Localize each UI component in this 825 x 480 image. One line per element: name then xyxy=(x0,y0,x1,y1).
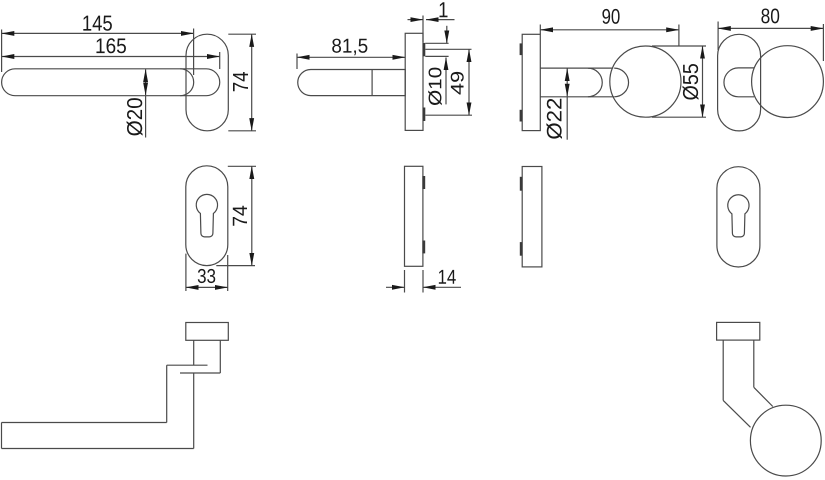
dimension 145 xyxy=(2,16,194,75)
knob neck (plan view, cranked) xyxy=(723,340,773,427)
keyhole (euro profile cylinder, right) xyxy=(728,195,749,237)
clip top (knob plate) xyxy=(520,43,523,55)
dimension 33 xyxy=(186,254,228,291)
dimension diameter 20 xyxy=(127,69,146,137)
clip bottom (knob plate) xyxy=(520,110,523,122)
lever handle silhouette (front view, top-left) xyxy=(2,69,220,96)
knob neck (front view) xyxy=(724,68,754,97)
lever grip inner end cap xyxy=(180,69,193,96)
dimension diameter 10 xyxy=(428,26,447,105)
knob neck inner cap xyxy=(588,68,602,97)
knob sphere (front view) xyxy=(752,46,824,118)
knob sphere (side view) xyxy=(610,46,681,117)
dimension 49 xyxy=(451,49,469,115)
dimension diameter 22 xyxy=(546,68,567,139)
escutcheon side view (right, mirrored) xyxy=(522,167,542,267)
lever crank outline (plan view) xyxy=(2,340,221,448)
dimension 165 xyxy=(2,38,220,69)
dimension 14 xyxy=(386,270,461,293)
clip top (escutcheon) xyxy=(422,176,425,189)
knob neck outer cap xyxy=(614,68,628,97)
dimension 90 xyxy=(540,9,679,46)
oval key escutcheon (front view, left) xyxy=(186,166,228,266)
dimension 80 xyxy=(718,8,823,61)
rose plate side view xyxy=(405,33,423,130)
lever neck joint line xyxy=(371,70,373,96)
spindle hub lines right of plate xyxy=(425,43,472,115)
oval key escutcheon (front view, right) xyxy=(717,167,760,267)
dimension 74 (escutcheon height) xyxy=(216,166,256,265)
dimension 1 (clip stand-off) xyxy=(408,2,455,42)
dimension diameter 55 xyxy=(652,46,706,117)
dimension 81,5 xyxy=(297,39,405,69)
lever side view (stadium) xyxy=(298,70,405,96)
knob rose plate side view xyxy=(522,34,540,130)
dimension 74 (lever rose height) xyxy=(228,34,256,131)
clip top (mirrored escutcheon) xyxy=(520,177,522,191)
keyhole (euro profile cylinder) xyxy=(196,194,217,237)
knob sphere (plan view) xyxy=(750,405,821,476)
oval rose of knob (front view) xyxy=(718,34,761,131)
escutcheon side view (left) xyxy=(405,166,423,266)
rose top view (plan of knob) xyxy=(717,322,760,340)
clip bottom (rose plate) xyxy=(423,108,426,122)
rose top view (plan of lever) xyxy=(186,323,229,341)
clip bottom (escutcheon) xyxy=(422,241,425,254)
knob neck cylinder xyxy=(540,68,614,97)
clip bottom (mirrored escutcheon) xyxy=(520,242,522,256)
clip top (rose plate) xyxy=(423,43,426,56)
oval rose (front view, behind lever) xyxy=(186,34,228,131)
